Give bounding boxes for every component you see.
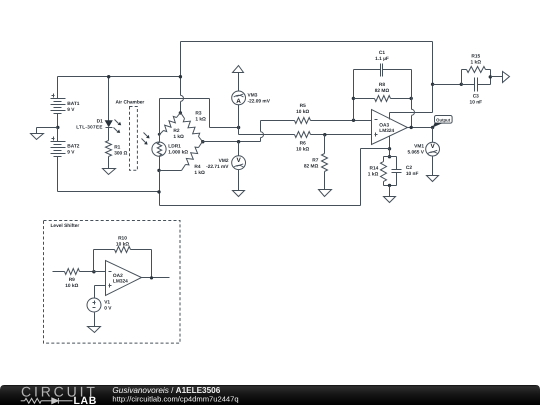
svg-text:R8: R8 xyxy=(379,82,385,88)
resistor R15 parallel capacitor C3 block xyxy=(461,70,463,85)
wire bottom left rail xyxy=(58,191,160,193)
voltage source V1 xyxy=(87,298,101,312)
node bridge bottom xyxy=(157,169,160,172)
node R9 feedback junction xyxy=(92,270,95,273)
photoresistor LDR1 xyxy=(159,135,161,142)
wire V+ to supply xyxy=(390,112,433,114)
svg-text:1.000 kΩ: 1.000 kΩ xyxy=(168,150,188,156)
svg-text:R1: R1 xyxy=(114,144,120,150)
resistor R5 xyxy=(295,118,311,124)
node VM2 tap xyxy=(237,140,240,143)
wire top rail xyxy=(181,41,433,43)
capacitor C1 xyxy=(354,69,381,71)
ground below R1 xyxy=(103,169,116,175)
voltmeter VM3 xyxy=(232,91,246,105)
wire bridge rail xyxy=(159,99,161,135)
svg-text:1 kΩ: 1 kΩ xyxy=(194,170,205,176)
svg-text:10 nF: 10 nF xyxy=(406,171,419,177)
svg-text:10 nF: 10 nF xyxy=(470,100,483,106)
node mid battery junction xyxy=(56,126,59,129)
wire R6 to op-amp xyxy=(311,134,372,136)
wire bridge bottom to R4 xyxy=(160,170,182,172)
node LED branch tap xyxy=(107,75,110,78)
wire hop over V+ wire xyxy=(412,109,415,115)
svg-text:300 Ω: 300 Ω xyxy=(114,150,127,156)
node bridge right xyxy=(201,140,204,143)
svg-text:10 kΩ: 10 kΩ xyxy=(116,242,129,248)
wire BAT2 minus down xyxy=(57,157,59,192)
wire main vertical supply xyxy=(180,42,182,96)
svg-text:LM324: LM324 xyxy=(113,279,128,285)
wire OA2 plus to V1 xyxy=(95,285,106,287)
svg-text:LAB: LAB xyxy=(74,395,97,405)
ground below V1 xyxy=(88,327,101,333)
flag Output xyxy=(435,116,453,124)
ground below VM2 xyxy=(233,191,245,197)
node R8 left xyxy=(352,97,355,100)
wire R10 feedback loop xyxy=(93,250,95,272)
svg-text:V1: V1 xyxy=(104,299,110,305)
svg-text:5.065 V: 5.065 V xyxy=(407,150,424,156)
node supply tap xyxy=(431,83,434,86)
svg-text:82 MΩ: 82 MΩ xyxy=(375,88,390,94)
node output feedback junction xyxy=(410,126,413,129)
node feedback tap xyxy=(352,119,355,122)
wire top rail to D1 xyxy=(108,77,110,121)
node VM3 tap xyxy=(237,126,240,129)
wire BAT1 minus to mid junction xyxy=(57,114,59,128)
wire V- to R14C2 xyxy=(389,149,391,157)
resistor R7 xyxy=(324,135,326,154)
svg-text:BAT2: BAT2 xyxy=(67,144,80,150)
wire VM3 tap to R6 xyxy=(238,128,240,135)
node R14C2 bottom xyxy=(388,184,391,187)
wire V- rail xyxy=(361,148,390,150)
ground below R7 xyxy=(319,190,332,197)
svg-text:1 kΩ: 1 kΩ xyxy=(471,60,482,66)
wire OA2 output xyxy=(142,277,170,279)
svg-text:1.1 µF: 1.1 µF xyxy=(375,56,389,62)
svg-text:C3: C3 xyxy=(473,94,479,100)
resistor R1 xyxy=(106,141,112,157)
node R8 right xyxy=(410,97,413,100)
svg-text:A: A xyxy=(236,98,241,105)
node R14C2 top xyxy=(388,155,391,158)
svg-text:LDR1: LDR1 xyxy=(168,144,181,150)
svg-text:R2: R2 xyxy=(173,128,179,134)
svg-text:1 kΩ: 1 kΩ xyxy=(368,172,379,178)
svg-text:10 kΩ: 10 kΩ xyxy=(296,146,309,152)
svg-text:http://circuitlab.com/cp4dmm7u: http://circuitlab.com/cp4dmm7u2447q xyxy=(112,394,238,403)
net flag output right xyxy=(503,72,510,83)
svg-text:LM324: LM324 xyxy=(379,128,394,134)
svg-text:C1: C1 xyxy=(379,50,385,56)
svg-text:R14: R14 xyxy=(369,166,378,172)
svg-text:9 V: 9 V xyxy=(67,107,75,113)
svg-text:C2: C2 xyxy=(406,165,412,171)
svg-text:V: V xyxy=(430,143,435,150)
resistor R14 parallel capacitor C2 block xyxy=(384,156,397,158)
wire hop over bridge rail xyxy=(181,95,184,101)
wire V1 to ground xyxy=(94,313,96,327)
resistor R6 xyxy=(295,132,311,138)
voltmeter VM1 xyxy=(432,128,434,143)
svg-text:R5: R5 xyxy=(300,103,306,109)
wire mid junction to BAT2 xyxy=(57,128,59,142)
power stub V- of OA3 xyxy=(389,136,391,149)
svg-text:10 kΩ: 10 kΩ xyxy=(65,283,78,289)
wire R1 to ground xyxy=(108,157,110,169)
voltmeter VM2 xyxy=(238,142,240,156)
wire to ground left xyxy=(37,127,58,129)
svg-text:VM2: VM2 xyxy=(219,158,229,164)
svg-text:VM3: VM3 xyxy=(248,93,258,99)
ground below R14C2 xyxy=(384,197,396,203)
svg-text:Output: Output xyxy=(436,117,451,122)
wire feedback right xyxy=(411,70,413,110)
op-amp OA3 xyxy=(372,110,408,145)
resistor R8 xyxy=(354,98,375,100)
wire feedback left xyxy=(353,70,355,121)
node V- junction xyxy=(388,147,391,150)
wire riser to R5 xyxy=(260,138,262,142)
svg-text:R7: R7 xyxy=(312,157,318,163)
svg-text:LTL-307EE: LTL-307EE xyxy=(76,124,103,129)
net flag above VM3 xyxy=(233,66,244,73)
resistor R2 xyxy=(177,113,181,118)
node bottom rail junction xyxy=(157,190,160,193)
wire bridge right to riser xyxy=(203,141,261,143)
svg-text:R15: R15 xyxy=(471,53,480,59)
svg-text:VM1: VM1 xyxy=(414,144,424,150)
svg-text:-22.71 mV: -22.71 mV xyxy=(206,164,229,170)
node filter output tap xyxy=(489,75,492,78)
battery BAT2 xyxy=(51,141,66,143)
node bridge top xyxy=(179,111,182,114)
svg-text:Level Shifter: Level Shifter xyxy=(51,223,80,229)
node filter left xyxy=(460,83,463,86)
svg-text:1 kΩ: 1 kΩ xyxy=(173,134,184,140)
svg-text:R9: R9 xyxy=(69,277,75,283)
logo schematic squiggle xyxy=(21,398,73,404)
svg-text:-22.09 mV: -22.09 mV xyxy=(248,99,271,105)
svg-text:R4: R4 xyxy=(194,164,200,170)
node bridge left xyxy=(158,133,161,136)
resistor R10 xyxy=(115,247,131,253)
svg-text:V: V xyxy=(236,157,241,164)
wire OA3 output xyxy=(408,127,433,129)
level shifter dashed box xyxy=(44,221,181,344)
op-amp OA2 xyxy=(106,261,142,296)
battery BAT1 xyxy=(51,98,66,100)
resistor R4 xyxy=(182,165,186,171)
svg-text:82 MΩ: 82 MΩ xyxy=(304,163,319,169)
svg-text:10 kΩ: 10 kΩ xyxy=(296,109,309,115)
diode D1 LED xyxy=(105,121,112,127)
svg-text:0 V: 0 V xyxy=(104,305,112,311)
svg-text:9 V: 9 V xyxy=(67,150,75,156)
wire R5 to op-amp xyxy=(311,120,372,122)
node output xyxy=(431,126,434,129)
resistor R3 xyxy=(181,113,185,119)
wire filter to flag xyxy=(491,76,503,78)
svg-text:Air Chamber: Air Chamber xyxy=(116,100,145,106)
wire supply to filter xyxy=(433,84,462,86)
svg-text:R3: R3 xyxy=(195,110,201,116)
svg-text:OA3: OA3 xyxy=(379,122,389,128)
wire R14C2 to ground xyxy=(389,186,391,197)
node supply/battery junction xyxy=(179,75,182,78)
ground left of batteries xyxy=(31,134,44,140)
svg-text:OA2: OA2 xyxy=(113,273,123,279)
svg-text:R6: R6 xyxy=(300,140,306,146)
svg-text:R10: R10 xyxy=(118,236,127,242)
wire LDR1 to bridge bottom xyxy=(159,157,161,171)
wire battery positive rail xyxy=(57,77,59,99)
node OA2 output xyxy=(150,276,153,279)
air chamber dashed box xyxy=(130,107,138,171)
wire R9 to OA2 minus xyxy=(94,271,106,273)
ground below VM1 xyxy=(427,176,439,182)
power stub V+ of OA3 xyxy=(389,113,391,120)
node R7 tap xyxy=(323,133,326,136)
svg-text:BAT1: BAT1 xyxy=(67,101,80,107)
resistor R9 xyxy=(53,271,65,273)
wire D1 to R1 xyxy=(108,128,110,141)
svg-text:1 kΩ: 1 kΩ xyxy=(195,116,206,122)
